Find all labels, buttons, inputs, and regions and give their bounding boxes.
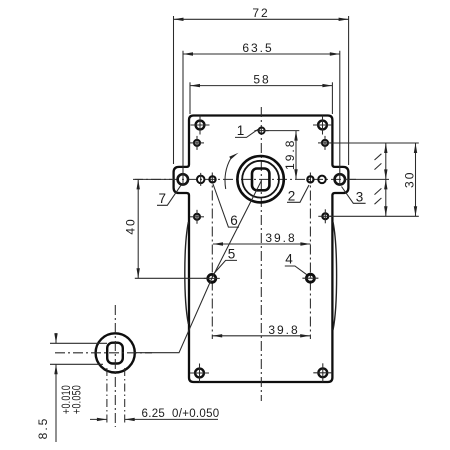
detail shaft hole [107,343,123,364]
screw hole bottom-right [313,363,332,382]
leader from detail to hole 5 to shaft [135,181,262,353]
label 4 [285,252,307,275]
small hole upper-left [190,136,204,150]
svg-text:0/+0.050: 0/+0.050 [172,408,220,420]
dimension 19.8 [266,131,300,180]
dimension 63.5 [183,41,340,185]
dimension 39.8 upper [213,231,310,246]
hole 4 [302,274,318,282]
small hole lower-right [318,209,332,223]
label 7 [157,185,181,206]
left ear hole 7 [178,174,188,184]
dimension 6.25 [90,368,220,424]
central boss outer circle [237,156,283,202]
screw hole bottom-left [190,364,209,383]
small hole lower-left [190,210,204,224]
hole 6 (left inner, thick) [209,176,215,182]
svg-text:8.5: 8.5 [36,417,50,440]
svg-text:63.5: 63.5 [242,41,273,55]
label 1 [235,123,258,138]
vertical centerline through holes 2/4 [309,173,311,340]
rotation direction arrow [225,158,231,189]
svg-text:39.8: 39.8 [268,323,299,337]
label 3 [342,187,366,205]
svg-text:1: 1 [237,123,245,138]
hole pair right outer [318,176,326,184]
vertical centerline through holes 5/6 [211,173,213,340]
svg-text:2: 2 [288,189,296,204]
svg-text:58: 58 [253,73,270,87]
svg-text:30: 30 [402,171,416,188]
svg-text:72: 72 [252,6,269,20]
label 5 [214,246,238,274]
vertical main centerline [260,107,262,401]
svg-text:7: 7 [159,191,167,206]
small hole upper-right [318,136,332,150]
svg-text:6: 6 [230,213,238,228]
svg-text:4: 4 [285,252,293,267]
dimension 8.5 with tolerance [36,333,107,442]
dimension 30 [329,143,419,216]
svg-text:6.25: 6.25 [142,408,166,420]
parallelism dimension lower segment [345,179,389,216]
right ear hole 3 [335,174,345,184]
hole pair left outer [197,173,205,186]
parallelism dimension upper segment [375,143,388,179]
dimension 72 [174,6,349,165]
svg-text:40: 40 [123,217,137,234]
horizontal ear centerline [133,178,356,180]
dimension 58 [190,73,332,114]
gearbox body outline [174,116,349,383]
svg-text:3: 3 [356,190,364,205]
svg-text:39.8: 39.8 [265,231,296,245]
svg-text:5: 5 [228,246,236,261]
detail horizontal centerline [55,352,152,354]
left side rib bulge [185,222,189,324]
screw hole top-left [191,116,210,135]
detail vertical centerline [114,305,116,427]
central boss inner circle [242,161,279,198]
hole 5 [204,274,220,282]
label 2 [287,185,309,204]
hole 2 (right inner, thick) [307,176,313,182]
label 6 [213,184,239,228]
detail view circle [96,333,135,372]
screw hole top-right [313,116,332,135]
hole 1 top center [255,128,269,134]
svg-text:+0.050: +0.050 [72,385,84,414]
right side rib bulge [333,222,337,330]
dimension 39.8 lower [212,323,310,338]
dimension 40 [123,179,207,278]
svg-text:19.8: 19.8 [283,139,297,170]
shaft square hole [252,169,269,191]
